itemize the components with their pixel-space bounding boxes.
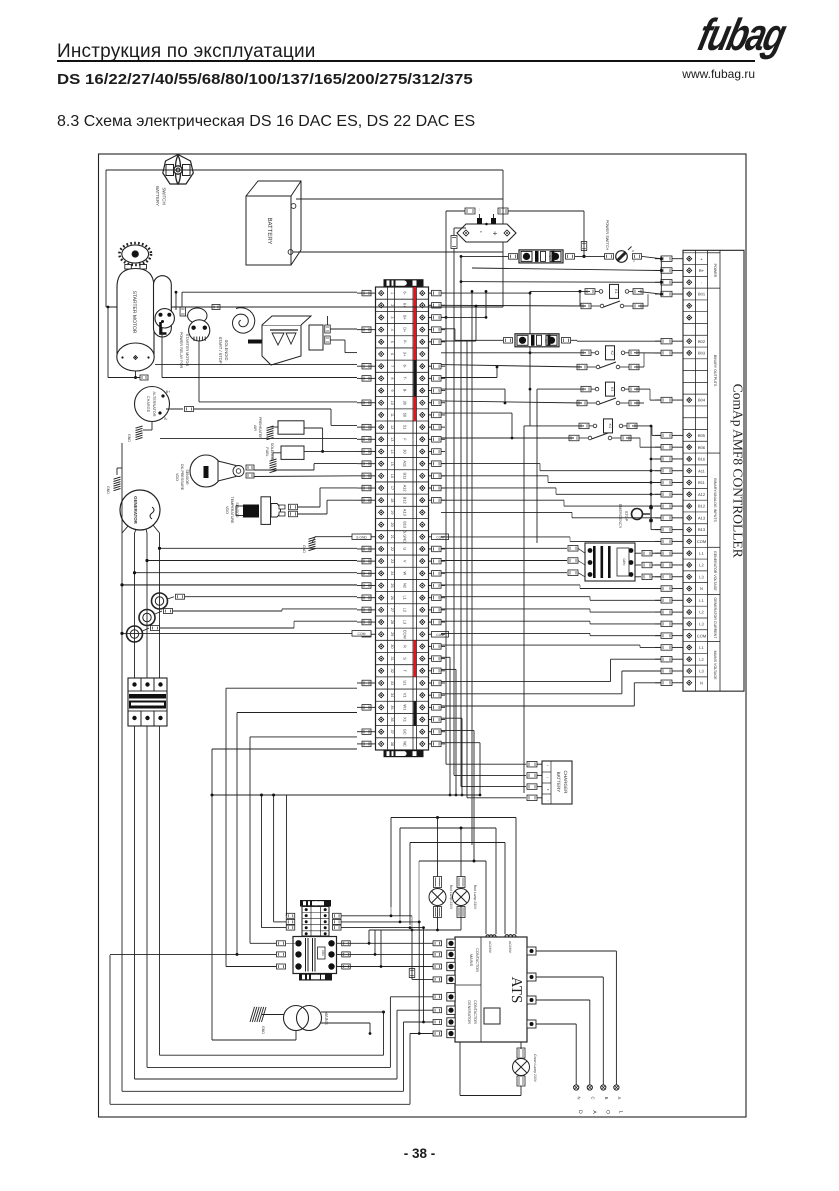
connector bbox=[451, 236, 457, 249]
wire bbox=[441, 412, 512, 414]
fuse F1 bbox=[519, 250, 563, 263]
wire bbox=[337, 966, 434, 968]
wire bbox=[110, 953, 237, 955]
wire bbox=[304, 450, 357, 452]
start/stop solenoid Y1 bbox=[188, 308, 210, 341]
svg-text:B03: B03 bbox=[698, 351, 706, 356]
wire bbox=[160, 1054, 384, 1056]
svg-text:P-: P- bbox=[403, 340, 408, 345]
svg-text:N2: N2 bbox=[403, 583, 408, 588]
power switch SA1 bbox=[605, 254, 614, 260]
wire bbox=[250, 736, 357, 738]
svg-text:START / STOP: START / STOP bbox=[218, 337, 223, 364]
wire bbox=[315, 536, 352, 538]
charge alternator G2 bbox=[135, 387, 171, 422]
wire bbox=[446, 763, 526, 765]
svg-text:POWER: POWER bbox=[713, 264, 717, 278]
wire bbox=[391, 817, 516, 819]
fuse F2 bbox=[515, 334, 559, 347]
wire bbox=[151, 422, 153, 431]
svg-text:S.GND: S.GND bbox=[356, 535, 367, 539]
svg-text:B06: B06 bbox=[698, 445, 706, 450]
wire bbox=[419, 860, 486, 862]
rail L2 bbox=[146, 533, 148, 678]
svg-text:L2: L2 bbox=[699, 657, 704, 662]
svg-text:31: 31 bbox=[390, 656, 394, 660]
wire bbox=[634, 388, 650, 390]
wire bbox=[155, 611, 162, 614]
svg-text:COM: COM bbox=[403, 630, 408, 639]
controller U1 ComAp AMF8 bbox=[655, 250, 746, 691]
svg-text:N: N bbox=[700, 680, 703, 685]
wire bbox=[122, 632, 352, 634]
connector COM bbox=[352, 631, 371, 637]
ground hatch bbox=[250, 1007, 266, 1022]
wire bbox=[635, 576, 641, 578]
svg-text:CONTACTOR: CONTACTOR bbox=[473, 1000, 477, 1024]
svg-text:R: R bbox=[403, 645, 408, 648]
svg-text:A12: A12 bbox=[403, 485, 408, 492]
svg-text:BINARY/ANALOG INPUTS: BINARY/ANALOG INPUTS bbox=[713, 478, 717, 522]
wire bbox=[175, 292, 177, 310]
svg-text:B+: B+ bbox=[166, 390, 170, 394]
wire bbox=[390, 996, 433, 998]
wire bbox=[262, 1014, 284, 1016]
wire bbox=[160, 547, 358, 549]
svg-text:GENERATOR CURRENT: GENERATOR CURRENT bbox=[713, 597, 717, 639]
wire bbox=[321, 1022, 370, 1024]
svg-text:AC230V: AC230V bbox=[488, 941, 492, 954]
load terminal N bbox=[574, 1085, 579, 1090]
svg-text:35: 35 bbox=[390, 705, 394, 709]
svg-text:GENERATOR: GENERATOR bbox=[467, 1000, 471, 1024]
wire bbox=[441, 401, 582, 403]
svg-text:L1: L1 bbox=[403, 596, 408, 600]
model list bbox=[57, 71, 473, 88]
svg-text:ComAp AMF8 CONTROLLER: ComAp AMF8 CONTROLLER bbox=[731, 384, 746, 558]
svg-text:SENSOR: SENSOR bbox=[185, 469, 189, 485]
emergency stop SB1 bbox=[632, 506, 653, 522]
svg-text:2: 2 bbox=[390, 304, 394, 306]
svg-text:30: 30 bbox=[403, 449, 408, 454]
svg-text:MAINS: MAINS bbox=[469, 954, 473, 966]
svg-text:AIR: AIR bbox=[253, 425, 257, 431]
connector bbox=[277, 941, 286, 946]
wire bbox=[181, 292, 183, 307]
rail B+ bbox=[445, 211, 447, 764]
connector bbox=[277, 952, 286, 957]
starter gear bbox=[119, 243, 151, 265]
connector S.GND bbox=[352, 534, 371, 540]
svg-text:13: 13 bbox=[390, 437, 394, 441]
circuit breaker QF1 bbox=[128, 678, 167, 726]
svg-text:+: + bbox=[493, 229, 498, 238]
svg-text:COM: COM bbox=[436, 535, 444, 539]
wire bbox=[441, 463, 540, 465]
svg-text:3: 3 bbox=[390, 316, 394, 318]
relay K4 contact bbox=[569, 435, 579, 441]
wire bbox=[635, 552, 641, 554]
terminal block X2 bbox=[286, 900, 341, 936]
svg-text:K3: K3 bbox=[610, 387, 614, 391]
wire bbox=[105, 170, 107, 307]
svg-text:B13: B13 bbox=[403, 521, 408, 528]
svg-text:CONTACTOR: CONTACTOR bbox=[475, 948, 479, 972]
wire bbox=[418, 922, 420, 1034]
connector bbox=[504, 338, 513, 344]
svg-text:B01: B01 bbox=[698, 292, 706, 297]
wire bbox=[321, 1011, 384, 1013]
wire bbox=[330, 339, 345, 341]
svg-text:L1: L1 bbox=[699, 598, 704, 603]
header title bbox=[57, 41, 316, 63]
wire bbox=[212, 794, 287, 796]
svg-text:BATTERY: BATTERY bbox=[266, 217, 273, 244]
wire bbox=[441, 437, 574, 439]
connector bbox=[509, 254, 518, 260]
svg-text:MAINS VOLTAGE: MAINS VOLTAGE bbox=[713, 651, 717, 680]
wire bbox=[642, 256, 661, 258]
svg-text:B11: B11 bbox=[698, 480, 706, 485]
battery GB1 bbox=[246, 181, 301, 265]
svg-text:8: 8 bbox=[390, 377, 394, 379]
rail N bbox=[121, 443, 123, 1091]
svg-text:K1: K1 bbox=[614, 289, 618, 293]
green lamp HL3 bbox=[517, 1048, 525, 1058]
svg-text:1: 1 bbox=[633, 259, 635, 263]
wire bbox=[226, 687, 357, 689]
wire bbox=[369, 929, 461, 931]
wire bbox=[107, 307, 109, 378]
svg-text:20: 20 bbox=[390, 522, 394, 526]
current transformer TA1 bbox=[152, 593, 168, 609]
svg-text:A13: A13 bbox=[403, 509, 408, 516]
red lamp HL2 bbox=[457, 877, 465, 888]
wire bbox=[441, 536, 570, 538]
wire bbox=[441, 328, 455, 330]
wire bbox=[147, 1066, 390, 1068]
wire bbox=[479, 214, 481, 218]
connector bbox=[212, 305, 220, 310]
relay K4 coil bbox=[579, 423, 589, 429]
page number bbox=[0, 1146, 839, 1161]
wire bbox=[287, 794, 481, 796]
wire bbox=[437, 818, 439, 877]
wire bbox=[341, 927, 424, 929]
wire bbox=[423, 928, 425, 1022]
svg-text:37: 37 bbox=[390, 730, 394, 734]
connector bbox=[433, 1020, 442, 1025]
wire bbox=[441, 668, 456, 670]
wire bbox=[330, 328, 357, 330]
svg-text:KM1: KM1 bbox=[321, 950, 325, 956]
wire bbox=[410, 1033, 433, 1035]
svg-text:L: L bbox=[617, 1111, 623, 1114]
svg-text:W1: W1 bbox=[403, 704, 408, 710]
generator contactor KM2 bbox=[585, 543, 635, 581]
load terminal C bbox=[587, 1085, 592, 1090]
svg-text:0: 0 bbox=[632, 249, 634, 253]
wire bbox=[520, 1042, 522, 1049]
wire bbox=[441, 681, 611, 683]
svg-text:29: 29 bbox=[390, 632, 394, 636]
wire bbox=[296, 198, 503, 200]
wire bbox=[626, 437, 640, 439]
svg-text:25: 25 bbox=[390, 583, 394, 587]
wire bbox=[122, 526, 128, 533]
svg-text:U1: U1 bbox=[403, 680, 408, 685]
svg-text:S.GND: S.GND bbox=[403, 531, 408, 544]
ground bbox=[114, 477, 121, 479]
wire bbox=[441, 365, 582, 367]
wire bbox=[453, 228, 455, 236]
svg-text:-: - bbox=[480, 227, 483, 236]
svg-text:B13: B13 bbox=[698, 527, 706, 532]
svg-text:K4: K4 bbox=[608, 424, 612, 428]
wire bbox=[135, 371, 137, 378]
svg-text:7: 7 bbox=[390, 365, 394, 367]
wire bbox=[122, 1090, 404, 1092]
wire bbox=[441, 388, 505, 390]
wire bbox=[441, 377, 497, 379]
svg-text:BINARY OUTPUTS: BINARY OUTPUTS bbox=[713, 355, 717, 387]
svg-text:Green Lamp 230V: Green Lamp 230V bbox=[533, 1054, 537, 1082]
svg-text:F: F bbox=[403, 438, 408, 441]
wire bbox=[237, 712, 357, 714]
wire bbox=[441, 511, 572, 513]
svg-text:PREHEATER: PREHEATER bbox=[258, 417, 262, 439]
relay K3 coil bbox=[581, 386, 591, 392]
svg-text:SOLENOID: SOLENOID bbox=[270, 443, 274, 462]
svg-text:D+: D+ bbox=[403, 327, 408, 333]
wire bbox=[272, 453, 274, 459]
svg-text:32: 32 bbox=[390, 669, 394, 673]
wire bbox=[182, 291, 357, 293]
svg-text:SOLENOID: SOLENOID bbox=[224, 340, 229, 361]
wire bbox=[337, 942, 434, 944]
svg-text:SENSOR: SENSOR bbox=[235, 502, 239, 518]
rail Bm bbox=[460, 256, 462, 786]
svg-text:L3: L3 bbox=[699, 621, 704, 626]
wire bbox=[122, 584, 357, 586]
site url bbox=[655, 67, 755, 81]
wire bbox=[441, 620, 590, 622]
load terminal B bbox=[601, 1085, 606, 1090]
svg-text:O: O bbox=[604, 1110, 610, 1114]
mains contactor KM1 bbox=[293, 937, 337, 981]
svg-text:B+: B+ bbox=[403, 315, 408, 321]
connector bbox=[433, 1031, 442, 1036]
wire bbox=[441, 705, 634, 707]
svg-text:X1: X1 bbox=[403, 717, 408, 722]
ground bbox=[309, 537, 316, 539]
svg-text:50: 50 bbox=[403, 413, 408, 418]
svg-text:18: 18 bbox=[390, 498, 394, 502]
wire bbox=[194, 408, 331, 410]
svg-text:U: U bbox=[403, 548, 408, 551]
fubag logo bbox=[694, 9, 779, 59]
wire bbox=[160, 437, 357, 439]
svg-text:OIL PRESSURE: OIL PRESSURE bbox=[180, 464, 184, 491]
pump terminal 1 bbox=[325, 325, 331, 333]
relay K1 coil bbox=[585, 289, 595, 295]
coil KM2 AC230V bbox=[505, 935, 516, 937]
current transformer TA3 bbox=[127, 626, 143, 642]
svg-text:GC: GC bbox=[403, 729, 408, 735]
svg-text:K2: K2 bbox=[610, 351, 614, 355]
svg-text:GND: GND bbox=[302, 545, 306, 553]
wire bbox=[632, 425, 652, 427]
connector bbox=[289, 504, 298, 510]
wire bbox=[273, 795, 275, 922]
svg-text:6: 6 bbox=[390, 353, 394, 355]
wire bbox=[530, 290, 590, 292]
svg-text:S: S bbox=[403, 657, 408, 660]
connector bbox=[433, 952, 442, 957]
svg-text:Red Lamp 230V: Red Lamp 230V bbox=[473, 885, 477, 910]
wire bbox=[650, 426, 652, 506]
load terminal A bbox=[614, 1085, 619, 1090]
connector bbox=[185, 407, 194, 412]
wire bbox=[110, 1103, 410, 1105]
svg-text:D: D bbox=[577, 1110, 583, 1114]
connector bbox=[465, 208, 475, 214]
wire bbox=[254, 469, 314, 471]
wire bbox=[147, 560, 357, 562]
rail left bbox=[109, 955, 111, 1104]
wire bbox=[261, 795, 263, 928]
wire bbox=[493, 214, 495, 218]
svg-text:B12: B12 bbox=[403, 497, 408, 504]
svg-text:COM: COM bbox=[358, 632, 366, 636]
svg-text:A11: A11 bbox=[698, 468, 706, 473]
svg-text:B-: B- bbox=[164, 417, 168, 421]
svg-text:5: 5 bbox=[390, 341, 394, 343]
rail L3b bbox=[159, 726, 161, 1055]
svg-text:GENERATOR: GENERATOR bbox=[133, 496, 138, 524]
relay K3 contact bbox=[577, 400, 587, 406]
wire bbox=[166, 408, 183, 410]
svg-text:6-: 6- bbox=[403, 364, 408, 368]
svg-text:SWITCH: SWITCH bbox=[162, 187, 167, 204]
svg-text:TEMPERATURE: TEMPERATURE bbox=[230, 497, 234, 524]
header rule bbox=[57, 60, 755, 62]
wire bbox=[485, 291, 487, 317]
connector bbox=[246, 465, 254, 470]
ATS controller A1 bbox=[447, 937, 536, 1042]
connector bbox=[498, 208, 508, 214]
wire bbox=[472, 268, 661, 271]
fuel pump bbox=[262, 316, 323, 365]
wire bbox=[441, 475, 548, 477]
svg-text:C: C bbox=[590, 1096, 595, 1099]
starter motor M1 bbox=[117, 265, 154, 372]
svg-text:GND: GND bbox=[106, 486, 110, 494]
wire bbox=[441, 316, 446, 318]
wire bbox=[341, 915, 412, 917]
wire bbox=[651, 458, 661, 460]
wire bbox=[285, 915, 287, 917]
wire bbox=[135, 1078, 398, 1080]
wire bbox=[441, 656, 450, 658]
svg-text:N: N bbox=[577, 1096, 582, 1099]
svg-text:B+: B+ bbox=[699, 268, 705, 273]
svg-text:24: 24 bbox=[390, 571, 394, 575]
svg-text:B12: B12 bbox=[698, 504, 706, 509]
wire bbox=[441, 742, 480, 744]
svg-text:4: 4 bbox=[390, 329, 394, 331]
schematic outer frame bbox=[99, 154, 747, 1117]
svg-text:T-: T- bbox=[403, 377, 408, 381]
svg-text:VDO: VDO bbox=[225, 506, 229, 514]
battery charger U2 bbox=[542, 761, 572, 804]
wire bbox=[155, 364, 357, 366]
svg-text:VDO: VDO bbox=[175, 473, 179, 481]
wire bbox=[441, 608, 590, 610]
wire bbox=[454, 774, 526, 776]
svg-text:12: 12 bbox=[390, 425, 394, 429]
svg-text:POWER RELAY FOR: POWER RELAY FOR bbox=[179, 332, 183, 369]
svg-text:COM: COM bbox=[697, 633, 706, 638]
svg-text:L3: L3 bbox=[699, 574, 704, 579]
svg-text:GENERATOR VOLTAGE: GENERATOR VOLTAGE bbox=[713, 551, 717, 591]
svg-text:A11: A11 bbox=[403, 460, 408, 467]
svg-text:11: 11 bbox=[390, 413, 394, 417]
starter power relay K5 bbox=[155, 309, 174, 334]
svg-text:28: 28 bbox=[390, 620, 394, 624]
svg-text:30: 30 bbox=[403, 401, 408, 406]
pickup coil bbox=[233, 308, 255, 333]
svg-text:EMERGENCY: EMERGENCY bbox=[618, 504, 622, 529]
transformer T1 bbox=[284, 1006, 309, 1031]
svg-text:FUEL: FUEL bbox=[265, 447, 269, 456]
svg-text:T: T bbox=[403, 670, 408, 673]
wire bbox=[634, 352, 661, 354]
wire bbox=[467, 797, 526, 799]
svg-text:CHARGER: CHARGER bbox=[563, 771, 568, 795]
wire bbox=[441, 560, 567, 562]
svg-text:A: A bbox=[591, 1110, 597, 1114]
svg-text:V: V bbox=[403, 560, 408, 563]
svg-text:B-: B- bbox=[403, 389, 408, 394]
relay K1 contact bbox=[581, 303, 591, 309]
svg-text:17: 17 bbox=[390, 486, 394, 490]
wire bbox=[441, 729, 474, 731]
svg-text:AC230V: AC230V bbox=[508, 941, 512, 954]
svg-text:BATTERY: BATTERY bbox=[556, 772, 561, 793]
svg-text:STOP: STOP bbox=[624, 511, 628, 522]
wire bbox=[638, 305, 648, 307]
wire bbox=[446, 210, 465, 212]
wire bbox=[441, 644, 640, 646]
svg-text:38: 38 bbox=[390, 742, 394, 746]
fuel solenoid Y2 bbox=[281, 446, 304, 459]
air preheater E1 bbox=[278, 421, 304, 434]
connector bbox=[277, 964, 286, 969]
svg-text:L3: L3 bbox=[699, 669, 704, 674]
wire bbox=[461, 255, 508, 257]
red lamp HL1 bbox=[434, 877, 442, 888]
connector bbox=[433, 1008, 442, 1013]
svg-text:STARTER MOTOR: STARTER MOTOR bbox=[131, 291, 137, 334]
rail L2b bbox=[146, 726, 148, 1067]
svg-text:COM: COM bbox=[697, 539, 706, 544]
svg-text:NC: NC bbox=[403, 741, 408, 747]
wire bbox=[634, 366, 644, 368]
relay K2 contact bbox=[577, 364, 587, 370]
svg-text:22: 22 bbox=[390, 547, 394, 551]
wire bbox=[441, 292, 530, 294]
